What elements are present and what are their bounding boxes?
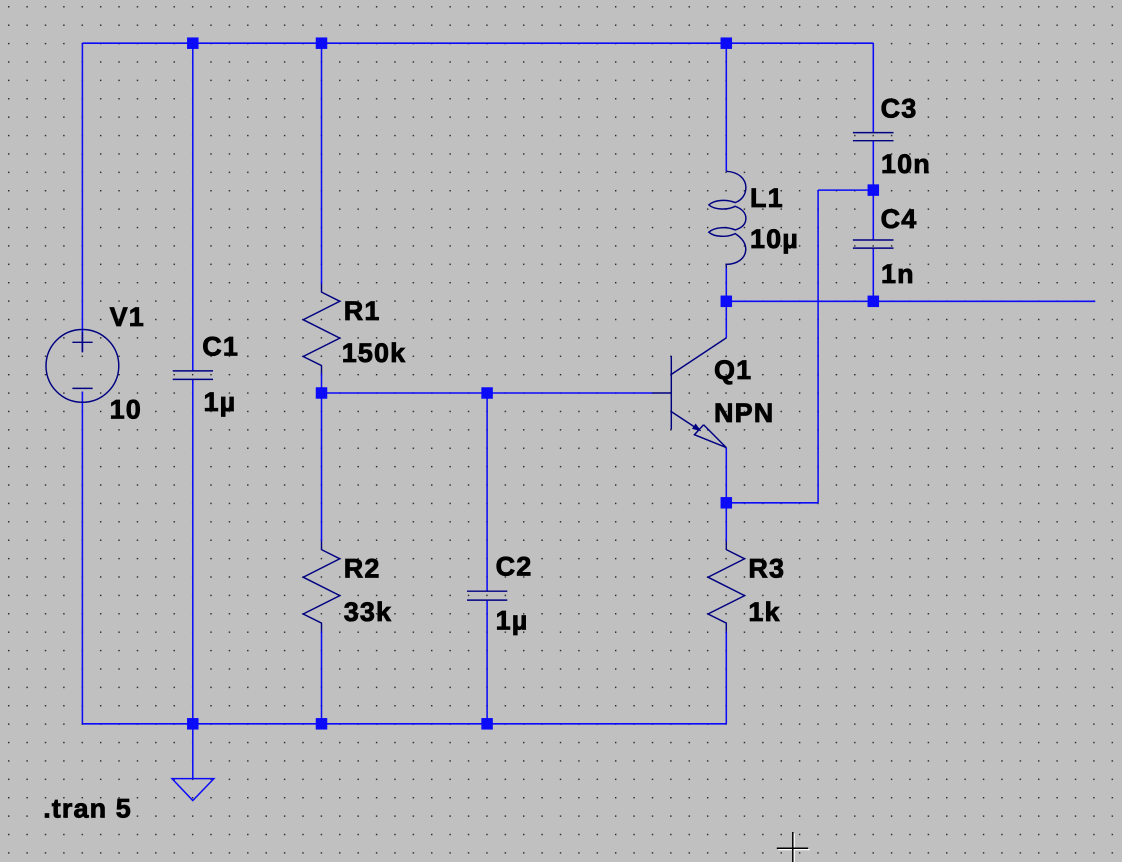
ground xyxy=(172,779,214,801)
junction node output L1 xyxy=(721,296,733,308)
junction node C3-C4 xyxy=(868,184,880,196)
svg-text:R3: R3 xyxy=(748,553,785,583)
svg-text:1µ: 1µ xyxy=(496,606,529,636)
voltage source V1 xyxy=(46,330,119,403)
svg-text:10: 10 xyxy=(110,394,142,424)
junction node bottom C2 xyxy=(481,718,493,730)
wire feedback vertical xyxy=(817,190,819,503)
svg-text:1k: 1k xyxy=(748,597,780,627)
svg-text:C3: C3 xyxy=(881,94,918,124)
svg-text:150k: 150k xyxy=(342,338,406,368)
svg-text:R2: R2 xyxy=(344,553,381,583)
wire base rail xyxy=(322,392,653,394)
svg-text:L1: L1 xyxy=(750,183,784,213)
resistor R3 xyxy=(708,542,745,632)
wire C4 lower xyxy=(872,248,874,301)
junction node emitter xyxy=(721,497,733,509)
capacitor C4 xyxy=(853,240,894,248)
svg-text:33k: 33k xyxy=(344,597,392,627)
wire C3 lower xyxy=(872,141,874,190)
junction node top R1 xyxy=(316,37,328,49)
svg-text:NPN: NPN xyxy=(714,398,774,428)
inductor L1 xyxy=(709,171,746,268)
svg-text:10µ: 10µ xyxy=(750,224,799,254)
svg-text:1µ: 1µ xyxy=(204,387,237,417)
wire emitter xyxy=(725,448,727,503)
resistor R2 xyxy=(303,542,340,632)
svg-text:10n: 10n xyxy=(881,149,931,179)
wire collector xyxy=(725,301,727,338)
capacitor C2 xyxy=(467,591,507,600)
svg-text:Q1: Q1 xyxy=(714,355,752,385)
wire bottom rail xyxy=(82,723,726,725)
junction node top C1 xyxy=(187,37,199,49)
wire C4 upper xyxy=(872,190,874,240)
junction node base C2 xyxy=(481,387,493,399)
wire C3 upper xyxy=(872,43,874,132)
svg-text:C2: C2 xyxy=(496,552,533,582)
wire R1 lower xyxy=(321,374,323,394)
svg-text:1n: 1n xyxy=(881,259,915,289)
svg-text:C1: C1 xyxy=(202,332,239,362)
wire R2 upper xyxy=(321,393,323,542)
wire C2 upper xyxy=(486,393,488,591)
wire R3 lower xyxy=(725,631,727,724)
wire R2 lower xyxy=(321,631,323,724)
cursor crosshair xyxy=(777,832,808,862)
capacitor C1 xyxy=(173,371,213,380)
wire V1 bottom to ground rail xyxy=(81,392,83,724)
wire R1 upper xyxy=(321,43,323,284)
wire C1 upper xyxy=(192,43,194,371)
junction node bottom ground xyxy=(187,718,199,730)
svg-text:R1: R1 xyxy=(344,296,381,326)
svg-text:V1: V1 xyxy=(110,302,145,332)
wire feedback horizontal xyxy=(818,189,873,191)
wire output rail xyxy=(726,300,1095,302)
svg-text:.tran 5: .tran 5 xyxy=(43,794,132,824)
capacitor C3 xyxy=(853,133,894,141)
junction node output C4 xyxy=(868,296,880,308)
resistor R1 xyxy=(303,284,340,374)
transistor Q1 xyxy=(653,338,727,448)
wire L1 lower xyxy=(725,268,727,301)
wire top rail xyxy=(82,42,873,44)
transistor Q1 emitter arrowhead xyxy=(692,424,701,432)
wire left rail (V1 top) xyxy=(81,43,83,351)
svg-text:C4: C4 xyxy=(881,204,918,234)
wire C2 lower xyxy=(486,600,488,724)
junction node bottom R2 xyxy=(316,718,328,730)
junction node top L1 xyxy=(721,37,733,49)
wire L1 upper xyxy=(725,43,727,171)
junction node base left xyxy=(316,387,328,399)
wire ground stem xyxy=(192,724,194,779)
wire R3 upper xyxy=(725,503,727,542)
cursor crosshair shadow xyxy=(778,833,809,862)
wire emitter node to feedback xyxy=(726,502,818,504)
wire C1 lower xyxy=(192,379,194,723)
